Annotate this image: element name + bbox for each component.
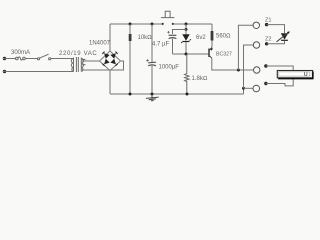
junction dot split node [185,28,188,31]
wire switch to transformer [51,58,74,60]
LED D6 [281,33,288,41]
connector socket 3 [254,67,260,73]
resistor R2 560 box [211,24,213,31]
svg-text:U: U [304,72,308,78]
junction dot zener branch top [185,23,188,26]
junction dot 10k top [129,23,132,26]
junction dot 10k bottom [129,93,132,96]
LED arrow [277,32,290,42]
wire riser to socket 4 [244,87,253,89]
wire bridge top vertex to top rail [109,24,111,51]
wire bridge bottom vertex to bottom rail [109,71,111,95]
junction dot 1000uF bottom [151,93,154,96]
door striker body [277,71,312,78]
wire LED to pin2 [267,41,285,44]
wire zener to base wire [185,42,187,54]
zener D5 6v2 [185,30,187,35]
svg-text:10kΩ: 10kΩ [138,35,153,41]
junction dot collector node [237,69,240,72]
connector socket 4 [253,85,260,92]
base wire [173,53,209,55]
junction dot 1000uF top [151,23,154,26]
svg-text:1.8kΩ: 1.8kΩ [192,76,208,82]
wire pin3 to striker loop [266,66,293,86]
svg-text:1N4007: 1N4007 [89,41,111,47]
pushbutton S2 contacts [162,23,174,25]
connector pin 4 [264,82,267,85]
svg-text:BC327: BC327 [216,52,232,58]
transformer T1 core [76,57,78,72]
bridge diode bottom-left [102,59,109,66]
svg-text:Z2: Z2 [265,37,271,43]
transformer T1 primary winding [71,58,73,72]
wire riser up to Z2 [244,45,254,88]
wire pin1 to LED [267,25,285,33]
bridge diode bottom-right [110,59,117,66]
pushbutton S2 contact bar [161,17,174,19]
wire split node to cap 4u7 [173,30,187,35]
wire top input to fuse [3,58,16,60]
svg-text:4.7 µF: 4.7 µF [152,42,169,48]
input terminal top [3,57,6,60]
fuse F1 300mA [15,57,25,60]
ground symbol [146,94,159,101]
bridge diode top-left [102,52,109,59]
top rail right segment [174,23,213,25]
svg-text:220/19 VAC: 220/19 VAC [59,51,97,57]
resistor R1 10k box [129,24,131,34]
capacitor C1 1000uF [151,24,153,63]
connector socket 1 [253,22,259,28]
connector pin 1 [265,23,268,26]
wire bottom input to transformer [3,71,74,73]
junction dot ground riser [242,87,245,90]
transformer T1 secondary winding [81,58,85,72]
svg-text:300mA: 300mA [11,50,30,56]
resistor R3 1.8k zigzag [185,54,189,94]
bottom rail [110,93,244,95]
wire secondary top to bridge left vertex [82,60,100,62]
switch S1 [37,54,50,60]
connector pin 2 [265,42,268,45]
capacitor C2 4.7uF [167,31,176,39]
top rail left segment [110,23,162,25]
connector socket 2 [253,42,259,48]
transistor Q1 BC327 [209,47,212,58]
wire cap 4u7 to base wire [172,39,174,54]
wire rail to split node [185,24,187,30]
collector wire [212,58,254,70]
transistor emitter arrow [210,48,213,51]
svg-text:Z1: Z1 [265,18,271,24]
bridge diode top-right [110,52,117,59]
input terminal bottom [3,70,6,73]
svg-text:6v2: 6v2 [196,35,206,41]
wire secondary bottom loop to bridge right vertex [82,61,124,70]
junction dot 1.8k bottom [186,93,189,96]
wire fuse to switch [25,58,37,60]
pushbutton S2 actuator bracket [165,11,170,17]
svg-text:560Ω: 560Ω [216,34,231,40]
wire ground riser right [243,88,245,94]
wire Z1 output riser [238,25,253,70]
connector pin 3 [264,64,267,67]
bridge rectifier D1-D4 diamond [100,51,121,71]
junction dot base wire [185,53,188,56]
svg-text:1000µF: 1000µF [159,65,180,71]
